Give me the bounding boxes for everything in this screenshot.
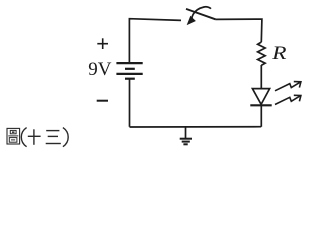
caption: character 十 [28,129,41,145]
caption: character 三 [46,131,61,144]
label + (battery positive) [97,38,108,49]
switch S1 blade [186,9,216,19]
battery B1 9V [116,63,142,79]
wire top-left (left vertical + top horizontal to switch contact) [129,19,181,63]
LED light arrow 1 (upper squiggle arrow) [275,82,301,91]
caption: ) [63,128,68,147]
label &#8722; (battery negative) [97,100,108,102]
ground [180,127,192,145]
caption: character 圖 [7,128,20,144]
LED D1 cathode bar [250,104,271,106]
LED D1 triangle [252,89,269,105]
svg-text:9V: 9V [88,59,112,80]
svg-text:R: R [271,42,286,63]
switch closing arrow [187,7,211,25]
wire right middle (resistor to LED) [260,65,262,89]
wire right lower (LED to bottom-right corner) [260,106,262,127]
LED light arrow 2 (lower squiggle arrow) [275,95,301,104]
caption: ( [21,128,26,147]
resistor R [258,42,266,65]
wire bottom [130,126,262,128]
wire left bottom (battery minus to bottom-left corner) [129,79,131,127]
wire top-right (switch pivot to top-right corner and down) [216,19,262,42]
